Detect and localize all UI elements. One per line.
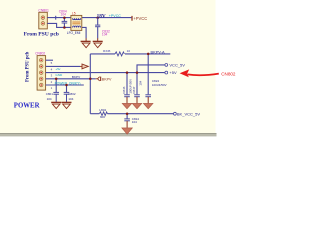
ground under C832 (93, 38, 103, 48)
pin numbers (51, 61, 53, 90)
junction BKPV-A (147, 53, 150, 56)
capacitor C824 (col3) (145, 95, 151, 97)
port arrow +5v (80, 64, 88, 69)
svg-text:BKPV: BKPV (72, 75, 81, 79)
svg-text:104: 104 (61, 13, 67, 17)
svg-text:C802: C802 (68, 92, 76, 96)
svg-text:BK_VCC_5V: BK_VCC_5V (177, 111, 200, 116)
capacitor C804 (62, 21, 68, 23)
ground under col1 (122, 97, 132, 109)
page bottom border band (0, 133, 217, 136)
svg-text:104: 104 (102, 33, 108, 37)
wire tick (55, 16, 57, 20)
ground under col2 (132, 97, 142, 109)
wire R345 row (90, 53, 115, 55)
wire pin3 GND to +5V (46, 72, 165, 74)
wire spine BKPV vertical (89, 54, 91, 114)
svg-text:104: 104 (138, 80, 142, 85)
wire C804 bottom (63, 23, 65, 27)
svg-text:L804: L804 (99, 108, 106, 112)
ground under C802 (62, 94, 72, 108)
wire pin4 +5v (46, 65, 80, 67)
svg-text:POWER: POWER (14, 102, 40, 109)
junction C804 top (63, 16, 66, 19)
capacitor C802 (64, 92, 70, 94)
capacitor C814 (124, 119, 130, 121)
pin circle VCC_5V (165, 64, 168, 67)
pin circle BK_VCC_5V (174, 112, 177, 115)
wire C802 down (66, 85, 68, 92)
wire pin1 POWER_ON (46, 84, 84, 86)
wire VCC_5V branch (137, 65, 165, 73)
connector CN801 (39, 12, 48, 29)
wire choke out bottom (82, 27, 86, 38)
ground under C814 (122, 121, 133, 134)
svg-text:104: 104 (132, 120, 137, 124)
wire GND return bottom (47, 23, 71, 27)
svg-text:C847: C847 (132, 86, 136, 93)
svg-text:CN802: CN802 (35, 51, 45, 55)
power port +PVCC (131, 16, 132, 21)
port BKPV (96, 77, 102, 81)
svg-text:VCC_5V: VCC_5V (169, 62, 185, 67)
svg-text:600: 600 (100, 115, 105, 119)
svg-text:C801: C801 (46, 92, 54, 96)
pin circle +5V (165, 71, 168, 74)
CN801 pin 2 (41, 22, 45, 26)
svg-text:LFO_EMI: LFO_EMI (67, 31, 81, 35)
svg-text:BKPV: BKPV (102, 77, 112, 81)
wire pin2 BKPV (46, 78, 96, 80)
ground under LFO_EMI (81, 38, 91, 48)
svg-text:From PSU pcb: From PSU pcb (24, 31, 59, 37)
CN801 pin 1 (41, 16, 45, 20)
svg-text:100UF/50V: 100UF/50V (152, 83, 167, 87)
wire C814 down (126, 114, 128, 119)
resistor R345 zigzag (115, 52, 124, 56)
net 18V junction (96, 16, 99, 19)
CN802 pins (39, 58, 43, 86)
svg-text:104: 104 (68, 97, 73, 101)
svg-text:BKPV-A: BKPV-A (151, 49, 165, 54)
svg-text:L5: L5 (72, 12, 76, 16)
capacitor C847 (col2) (134, 95, 140, 97)
wire BKPV-A vertical (147, 54, 149, 94)
svg-text:104: 104 (47, 97, 52, 101)
junction pin1 C802 (65, 84, 68, 87)
wire col2 C cap down (136, 73, 138, 95)
junction pin2 C801 (55, 78, 58, 81)
annotation arrow (188, 74, 219, 76)
junction L804 C814 (126, 112, 129, 115)
ground under C801 (51, 94, 61, 108)
svg-text:+5v: +5v (55, 67, 61, 71)
capacitor C846 (col1) (124, 95, 130, 97)
svg-text:+PVCC: +PVCC (109, 14, 121, 18)
junction GND col1 (126, 71, 129, 74)
wire col1 C cap down (126, 73, 128, 95)
capacitor C801 (53, 92, 59, 94)
wire L804 row (90, 113, 99, 115)
wire pin5 stub (46, 59, 53, 61)
svg-text:GND: GND (55, 73, 63, 77)
schematic page background (0, 0, 300, 168)
EMI filter LFO_EMI (71, 15, 82, 30)
junction C804 bottom (63, 26, 66, 29)
svg-text:10: 10 (127, 49, 131, 53)
wire C801 down (55, 79, 57, 92)
svg-text:R345: R345 (103, 49, 111, 53)
wire 18V rail right (82, 17, 132, 19)
connector CN802 (37, 56, 46, 91)
svg-text:From PSU pcb: From PSU pcb (25, 51, 30, 82)
svg-text:C846: C846 (122, 86, 126, 93)
wire C804 top (63, 18, 65, 22)
svg-text:CN802: CN802 (221, 71, 236, 76)
svg-text:+5V: +5V (169, 70, 177, 75)
ground under col3 (143, 97, 153, 109)
junction GND col2 (136, 71, 139, 74)
svg-text:+PVCC: +PVCC (133, 16, 147, 21)
wire 18V rail left (47, 17, 71, 19)
ferrite bead L804 zigzag (99, 112, 107, 116)
capacitor C832 (95, 18, 100, 39)
junction pin2 spine (89, 78, 92, 81)
